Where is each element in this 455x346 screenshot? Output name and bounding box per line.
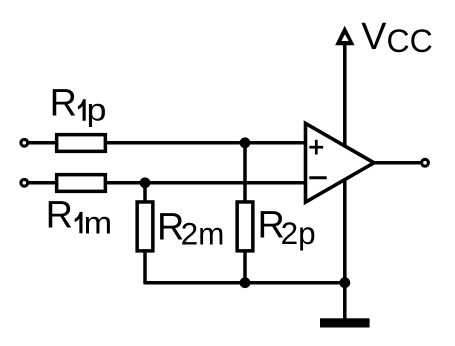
wire VCC/ground vertical bbox=[343, 30, 347, 319]
svg-text:2p: 2p bbox=[281, 215, 316, 251]
label VCC bbox=[361, 16, 433, 59]
wire output bbox=[374, 161, 425, 165]
terminal output bbox=[422, 159, 429, 166]
wire bottom (- input net) bbox=[24, 181, 307, 185]
label R1p bbox=[50, 83, 107, 128]
op-amp minus sign bbox=[309, 176, 326, 179]
terminal input minus bbox=[21, 179, 28, 186]
svg-text:R: R bbox=[46, 195, 73, 237]
label R2m bbox=[157, 206, 224, 251]
svg-text:m: m bbox=[84, 204, 113, 240]
svg-text:p: p bbox=[87, 92, 107, 128]
resistor R1p box bbox=[57, 135, 106, 152]
resistor R2p box bbox=[237, 202, 253, 251]
wire R2p vertical bbox=[243, 143, 247, 283]
wire bottom rail bbox=[143, 281, 344, 285]
label R1m bbox=[46, 195, 113, 241]
label R2p bbox=[258, 205, 316, 252]
svg-text:R: R bbox=[50, 83, 77, 125]
resistor R1m box bbox=[57, 175, 106, 192]
svg-text:V: V bbox=[361, 16, 387, 58]
junction dot rail R2p bbox=[240, 277, 251, 288]
op-amp plus sign bbox=[309, 140, 323, 155]
wire top (+ input net) bbox=[24, 141, 307, 145]
resistor R2m box bbox=[137, 202, 153, 251]
junction dot bottom wire (node -) bbox=[140, 177, 151, 188]
wire R2m vertical bbox=[143, 183, 147, 283]
svg-text:CC: CC bbox=[387, 23, 433, 59]
ground bbox=[320, 318, 370, 327]
VCC arrow bbox=[335, 26, 354, 46]
terminal input plus bbox=[21, 139, 28, 146]
junction dot rail ground bbox=[339, 277, 350, 288]
junction dot top (node +) bbox=[240, 137, 251, 148]
op-amp U1 triangle bbox=[306, 123, 375, 202]
svg-text:2m: 2m bbox=[181, 215, 225, 251]
